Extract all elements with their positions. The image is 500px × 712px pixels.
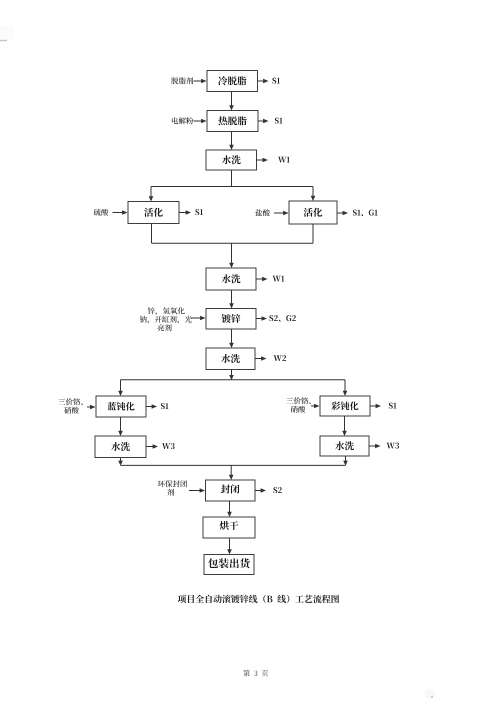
input arrow 脱脂剂→冷脱脂 — [194, 80, 203, 82]
scan artifact: speck bottom-right — [431, 696, 433, 698]
process box 包装出货 (pack & ship) — [204, 555, 254, 575]
process box 烘干 (drying) — [203, 517, 255, 538]
diagram caption 项目全自动滚镀锌线（B 线）工艺流程图 — [178, 595, 339, 603]
output arrow 水洗#1→W1 — [257, 159, 265, 161]
input label 脱脂剂 — [171, 77, 193, 84]
process box 彩钝化 (color passivation) — [320, 396, 370, 416]
input label 锌，氢氧化 (line 1) — [148, 307, 185, 315]
input label 盐酸 — [255, 209, 270, 216]
process box 水洗 #4 (left) — [95, 436, 146, 458]
output arrow 水洗#5→W3 — [369, 445, 377, 447]
output label S1、G1 — [353, 210, 378, 216]
flow arrow split2→蓝钝化 — [120, 380, 122, 392]
flow arrow 冷脱脂→热脱脂 — [231, 92, 233, 107]
input arrow 三价铬硝酸→蓝钝化 — [87, 406, 92, 408]
output arrow 热脱脂→S1 — [258, 120, 265, 122]
output arrow 封闭→S2 — [255, 490, 262, 492]
output label S1 (活化 left) — [195, 209, 203, 215]
input label 剂 (line 2) — [167, 489, 174, 496]
scan artifact: faint mark top-left — [0, 26, 13, 39]
merge line above 封闭 — [121, 464, 346, 466]
flow arrow 水洗#3→split line 2 — [231, 370, 233, 377]
flow arrow 蓝钝化→水洗#4 — [120, 417, 122, 432]
wire 水洗#1→split line — [231, 170, 233, 187]
output arrow 水洗#3→W2 — [255, 358, 263, 360]
output arrow 活化L→S1 — [179, 212, 187, 214]
output label S2、G2 — [269, 315, 295, 321]
process box 活化 (right) — [289, 201, 337, 224]
process box 水洗 #1 — [206, 150, 257, 170]
output arrow 水洗#2→W1 — [256, 278, 264, 280]
output label W2 — [274, 355, 287, 361]
process box 冷脱脂 (cold degrease) — [207, 71, 258, 92]
output label W3 (left) — [162, 443, 174, 449]
output label S1 (热脱脂) — [275, 118, 283, 124]
split line above 钝化 boxes — [121, 379, 346, 381]
process box 镀锌 (zinc plating) — [206, 309, 256, 330]
input label 钠，开缸剂，光 (line 2) — [140, 316, 192, 324]
process box 热脱脂 (hot degrease) — [207, 111, 258, 132]
split line above 活化 boxes — [151, 186, 313, 188]
process box 水洗 #5 (right) — [320, 436, 369, 456]
flow arrow split→活化 right — [312, 187, 314, 198]
flow arrow 水洗#5→merge line 2 — [345, 456, 347, 462]
input label 三价铬、 right (line 1) — [286, 397, 310, 404]
input arrow 盐酸→活化 right — [274, 212, 285, 214]
process box 水洗 #2 — [206, 268, 256, 290]
input label 硝酸 right (line 2) — [291, 406, 306, 413]
input label 亮剂 (line 3) — [157, 324, 171, 331]
output label W1 (水洗#1) — [278, 157, 290, 163]
input arrow 电解粉→热脱脂 — [194, 120, 203, 122]
input label 三价铬、 left (line 1) — [58, 398, 82, 405]
output label S2 — [273, 487, 281, 493]
flow arrow 水洗#2→镀锌 — [231, 290, 233, 305]
output arrow 冷脱脂→S1 — [258, 80, 265, 82]
flow arrow 水洗#4→merge line 2 — [120, 458, 122, 462]
flow arrow 烘干→包装出货 — [229, 538, 231, 551]
input arrow 三价铬硝酸→彩钝化 — [311, 405, 316, 407]
output label S1 (冷脱脂) — [272, 78, 280, 84]
flow arrow split2→彩钝化 — [344, 380, 346, 392]
flow arrow split→活化 left — [150, 187, 152, 198]
process box 水洗 #3 — [206, 348, 255, 370]
process box 活化 (left) — [128, 202, 179, 224]
output label S1 (蓝钝化) — [161, 403, 169, 409]
merge line below 活化 boxes — [152, 242, 314, 244]
output arrow 蓝钝化→S1 — [146, 406, 153, 408]
input arrow 环保封闭剂→封闭 — [189, 490, 201, 492]
flow arrow 镀锌→水洗#3 — [231, 329, 233, 344]
output arrow 镀锌→S2、G2 — [256, 318, 263, 320]
flow arrow merge→水洗#2 — [231, 243, 233, 264]
flow arrow merge2→封闭 — [230, 465, 232, 476]
input label 硝酸 left (line 2) — [64, 407, 79, 414]
flow arrow 彩钝化→水洗#5 — [344, 416, 346, 432]
flow arrow 热脱脂→水洗#1 — [231, 132, 233, 147]
input label 环保封闭 (line 1) — [158, 480, 187, 487]
process box 封闭 (sealing) — [206, 480, 256, 501]
output label W1 (水洗#2) — [273, 276, 285, 282]
input arrow 硫酸→活化 left — [113, 212, 124, 214]
wire 活化 left→merge line — [151, 224, 153, 244]
input label 电解粉 — [172, 117, 193, 124]
process box 蓝钝化 (blue passivation) — [96, 396, 146, 417]
wire 活化 right→merge line — [312, 224, 314, 243]
flow arrow 封闭→烘干 — [229, 501, 231, 513]
page footer 第 3 页 — [243, 670, 268, 677]
output arrow 彩钝化→S1 — [370, 405, 377, 407]
input arrow 镀锌 additives→镀锌 — [191, 317, 202, 319]
input label 硫酸 — [94, 209, 109, 216]
output label S1 (彩钝化) — [389, 403, 397, 409]
output arrow 活化R→S1、G1 — [337, 212, 344, 214]
output arrow 水洗#4→W3 — [146, 446, 154, 448]
output label W3 (right) — [387, 443, 399, 449]
